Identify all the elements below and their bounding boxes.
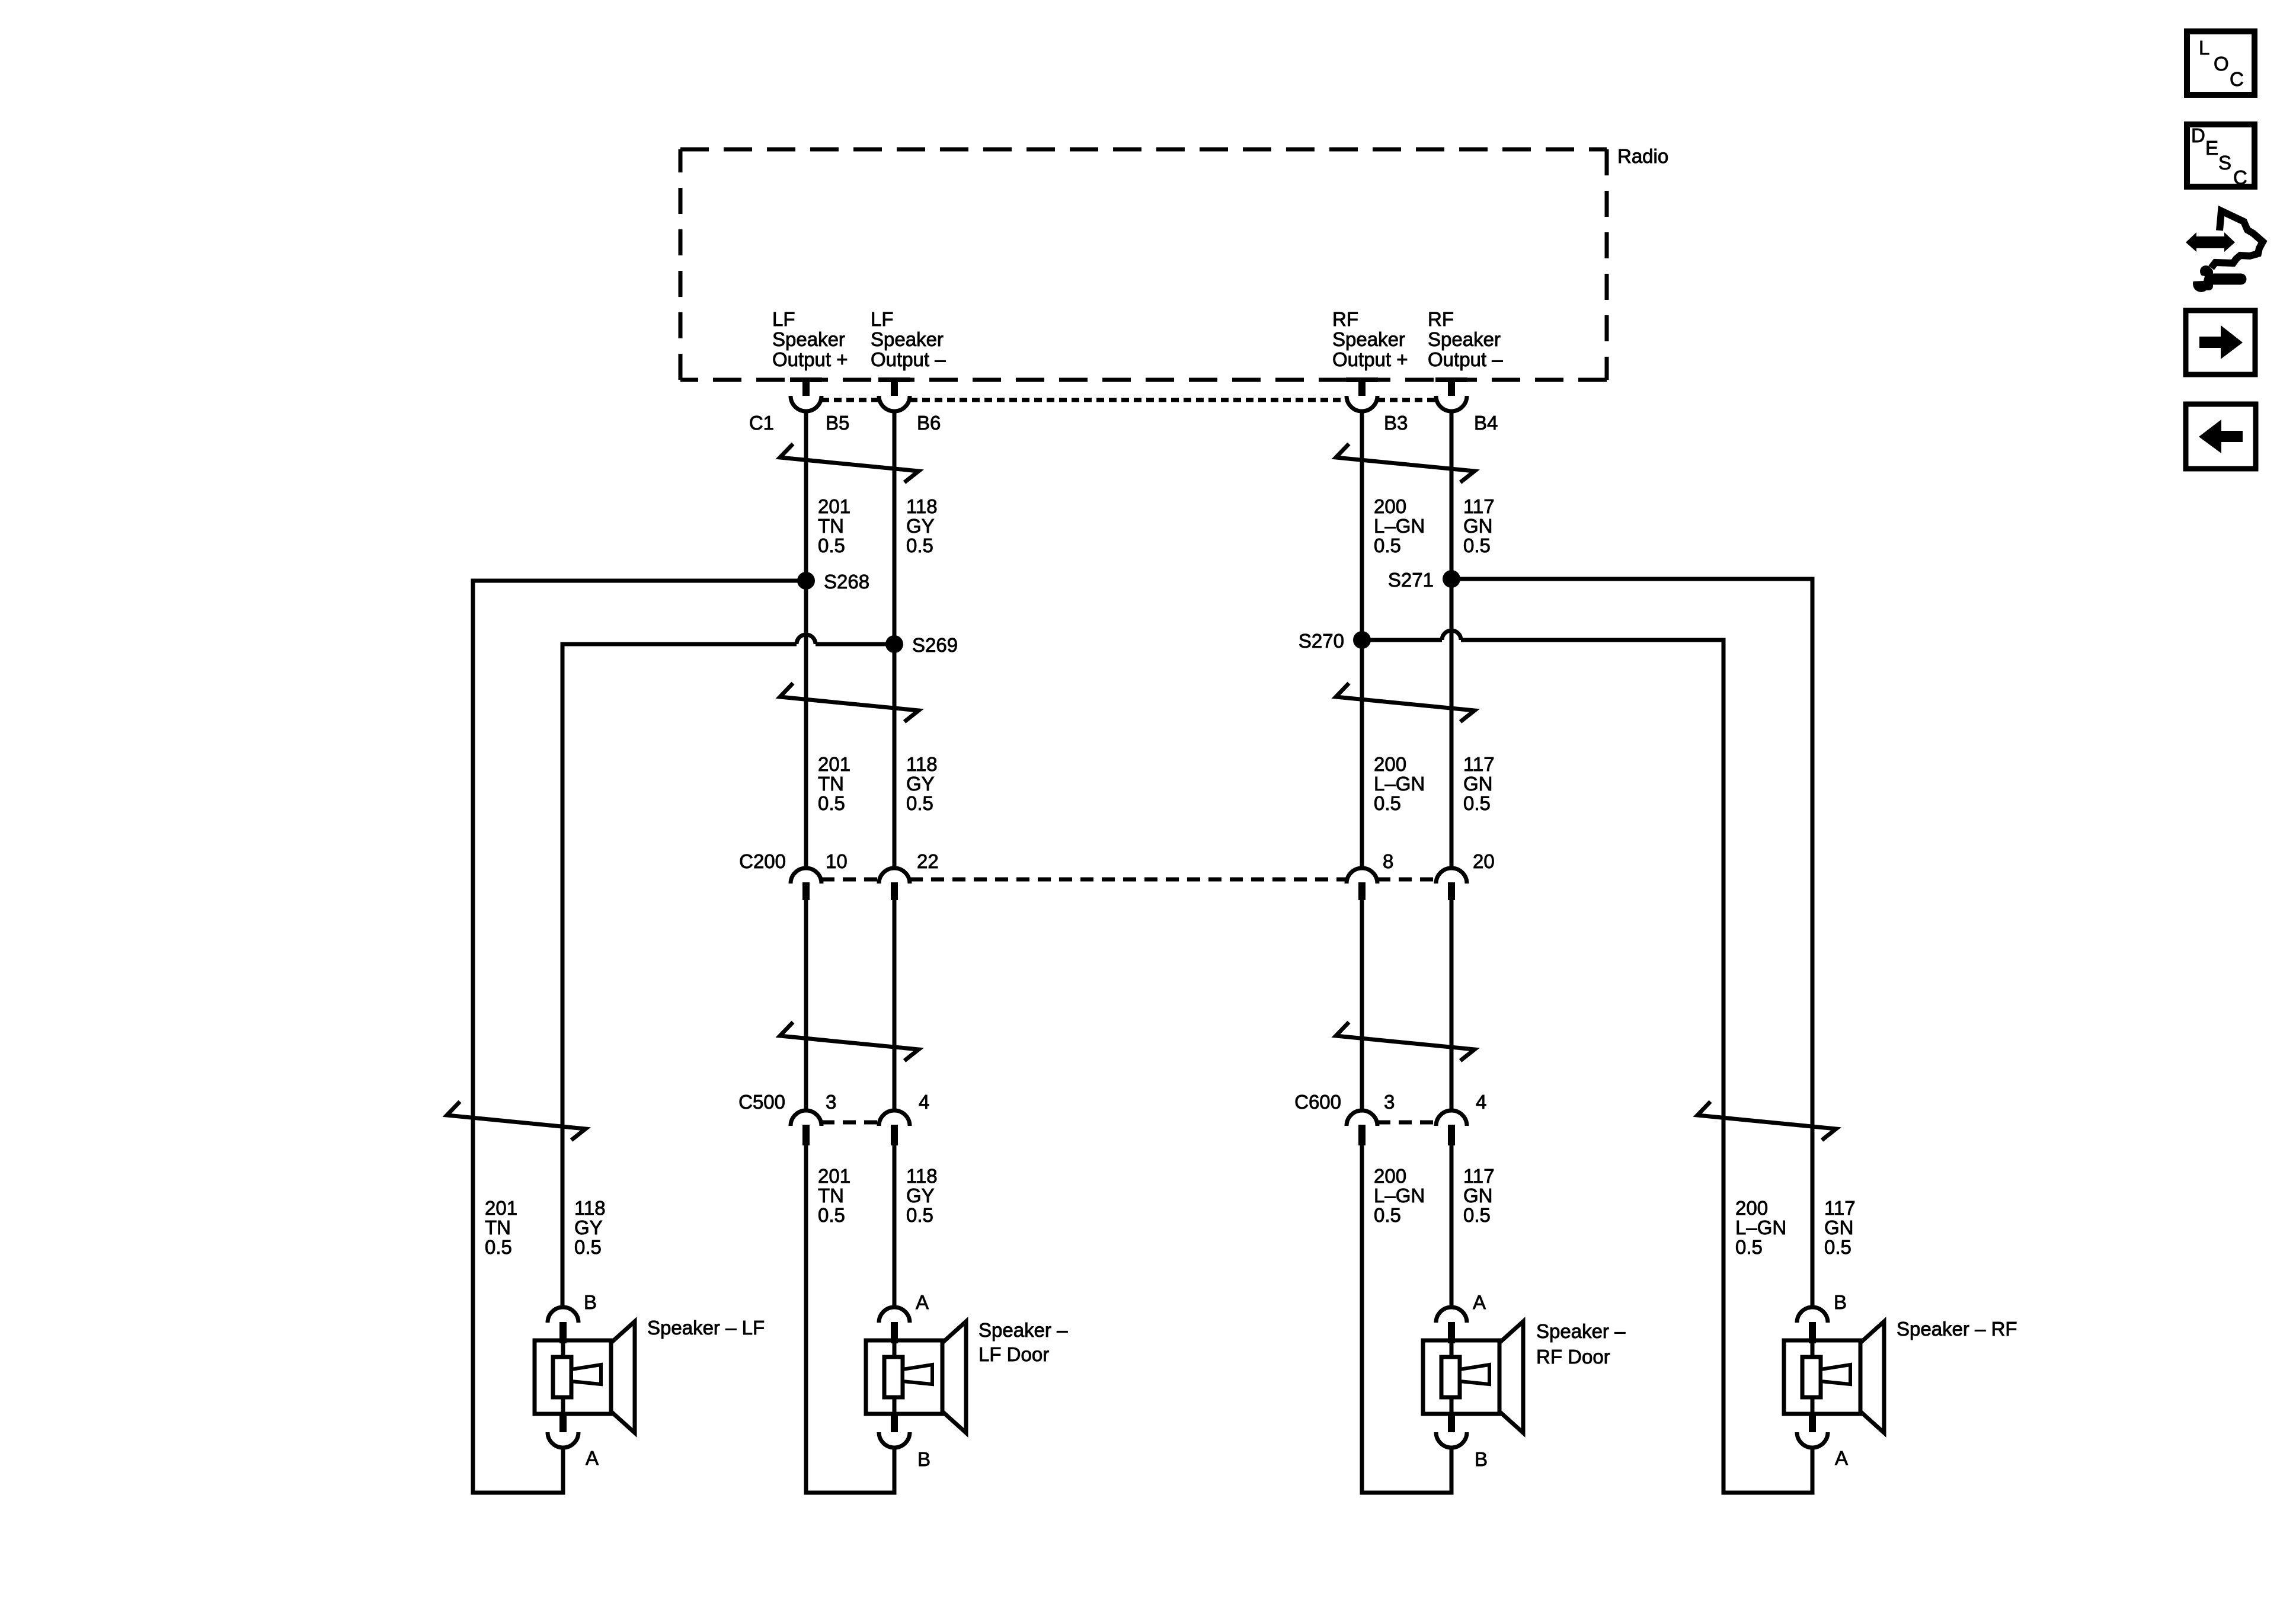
svg-text:S271: S271 — [1388, 569, 1434, 591]
svg-text:20: 20 — [1473, 850, 1495, 872]
svg-text:Radio: Radio — [1617, 145, 1668, 167]
svg-text:B5: B5 — [826, 412, 849, 434]
svg-text:200: 200 — [1374, 1165, 1406, 1187]
svg-text:S: S — [2218, 152, 2231, 174]
svg-text:200: 200 — [1374, 753, 1406, 775]
svg-text:LF: LF — [871, 308, 894, 330]
svg-text:0.5: 0.5 — [1374, 534, 1401, 556]
svg-text:0.5: 0.5 — [1463, 1204, 1491, 1226]
svg-text:S269: S269 — [912, 634, 958, 656]
svg-text:201: 201 — [485, 1197, 517, 1219]
svg-text:GY: GY — [906, 515, 935, 537]
svg-text:3: 3 — [826, 1091, 836, 1113]
svg-text:B: B — [1475, 1448, 1488, 1470]
svg-text:E: E — [2205, 137, 2218, 159]
svg-text:Output –: Output – — [871, 348, 946, 370]
svg-text:0.5: 0.5 — [906, 1204, 933, 1226]
svg-text:S270: S270 — [1299, 630, 1344, 652]
svg-text:GN: GN — [1463, 515, 1493, 537]
svg-text:Speaker: Speaker — [1332, 328, 1405, 350]
svg-text:TN: TN — [818, 515, 844, 537]
svg-text:D: D — [2191, 124, 2205, 146]
svg-text:0.5: 0.5 — [485, 1236, 512, 1258]
svg-text:GN: GN — [1463, 773, 1493, 795]
svg-text:B3: B3 — [1384, 412, 1408, 434]
svg-text:C200: C200 — [739, 850, 786, 872]
svg-text:RF: RF — [1428, 308, 1454, 330]
svg-text:C: C — [2230, 68, 2244, 90]
svg-text:GY: GY — [574, 1217, 603, 1238]
svg-text:L–GN: L–GN — [1374, 515, 1425, 537]
svg-text:O: O — [2214, 53, 2229, 75]
svg-text:0.5: 0.5 — [574, 1236, 602, 1258]
svg-text:A: A — [1473, 1291, 1486, 1313]
svg-text:GN: GN — [1824, 1217, 1854, 1238]
svg-text:B: B — [1834, 1291, 1847, 1313]
svg-text:0.5: 0.5 — [1374, 1204, 1401, 1226]
svg-text:Speaker: Speaker — [871, 328, 944, 350]
svg-text:118: 118 — [906, 495, 938, 517]
svg-text:117: 117 — [1463, 753, 1495, 775]
svg-text:B4: B4 — [1474, 412, 1498, 434]
svg-text:Speaker: Speaker — [772, 328, 845, 350]
svg-text:201: 201 — [818, 495, 850, 517]
svg-text:B6: B6 — [917, 412, 941, 434]
svg-text:S268: S268 — [824, 571, 869, 593]
svg-text:GY: GY — [906, 773, 935, 795]
svg-text:3: 3 — [1384, 1091, 1395, 1113]
svg-text:117: 117 — [1463, 495, 1495, 517]
svg-text:0.5: 0.5 — [1824, 1236, 1851, 1258]
svg-text:8: 8 — [1383, 850, 1393, 872]
svg-text:4: 4 — [919, 1091, 929, 1113]
svg-text:LF Door: LF Door — [978, 1343, 1049, 1365]
svg-text:Speaker: Speaker — [1428, 328, 1501, 350]
svg-text:Speaker – RF: Speaker – RF — [1897, 1318, 2017, 1340]
svg-text:0.5: 0.5 — [818, 1204, 845, 1226]
svg-text:0.5: 0.5 — [818, 534, 845, 556]
svg-text:C1: C1 — [749, 412, 774, 434]
svg-text:L–GN: L–GN — [1374, 773, 1425, 795]
svg-text:117: 117 — [1824, 1197, 1856, 1219]
svg-text:201: 201 — [818, 753, 850, 775]
svg-text:0.5: 0.5 — [906, 534, 933, 556]
svg-text:117: 117 — [1463, 1165, 1495, 1187]
svg-text:201: 201 — [818, 1165, 850, 1187]
svg-text:22: 22 — [917, 850, 939, 872]
svg-text:0.5: 0.5 — [818, 792, 845, 814]
svg-text:200: 200 — [1374, 495, 1406, 517]
svg-text:118: 118 — [906, 1165, 938, 1187]
svg-text:C: C — [2233, 167, 2247, 188]
svg-text:LF: LF — [772, 308, 795, 330]
svg-text:GY: GY — [906, 1185, 935, 1206]
svg-text:GN: GN — [1463, 1185, 1493, 1206]
svg-text:Speaker – LF: Speaker – LF — [647, 1317, 765, 1339]
svg-text:B: B — [917, 1448, 930, 1470]
svg-text:118: 118 — [906, 753, 938, 775]
svg-text:Speaker –: Speaker – — [978, 1319, 1068, 1341]
svg-text:C600: C600 — [1294, 1091, 1341, 1113]
svg-text:118: 118 — [574, 1197, 606, 1219]
svg-text:0.5: 0.5 — [1735, 1236, 1763, 1258]
svg-text:Output +: Output + — [772, 348, 848, 370]
svg-text:0.5: 0.5 — [906, 792, 933, 814]
svg-text:L–GN: L–GN — [1374, 1185, 1425, 1206]
svg-text:C500: C500 — [738, 1091, 785, 1113]
svg-text:0.5: 0.5 — [1463, 792, 1491, 814]
svg-text:Output –: Output – — [1428, 348, 1503, 370]
svg-text:TN: TN — [818, 1185, 844, 1206]
svg-text:A: A — [916, 1291, 929, 1313]
svg-text:10: 10 — [826, 850, 848, 872]
svg-text:Speaker –: Speaker – — [1536, 1320, 1626, 1342]
svg-text:L–GN: L–GN — [1735, 1217, 1786, 1238]
svg-text:RF Door: RF Door — [1536, 1346, 1610, 1368]
svg-text:4: 4 — [1476, 1091, 1486, 1113]
svg-text:TN: TN — [818, 773, 844, 795]
svg-text:Output +: Output + — [1332, 348, 1408, 370]
svg-text:A: A — [1835, 1447, 1848, 1469]
svg-text:L: L — [2199, 37, 2209, 59]
svg-text:200: 200 — [1735, 1197, 1768, 1219]
svg-text:A: A — [586, 1447, 599, 1469]
svg-text:TN: TN — [485, 1217, 511, 1238]
svg-text:0.5: 0.5 — [1463, 534, 1491, 556]
svg-text:B: B — [584, 1291, 597, 1313]
svg-text:0.5: 0.5 — [1374, 792, 1401, 814]
svg-text:RF: RF — [1332, 308, 1358, 330]
